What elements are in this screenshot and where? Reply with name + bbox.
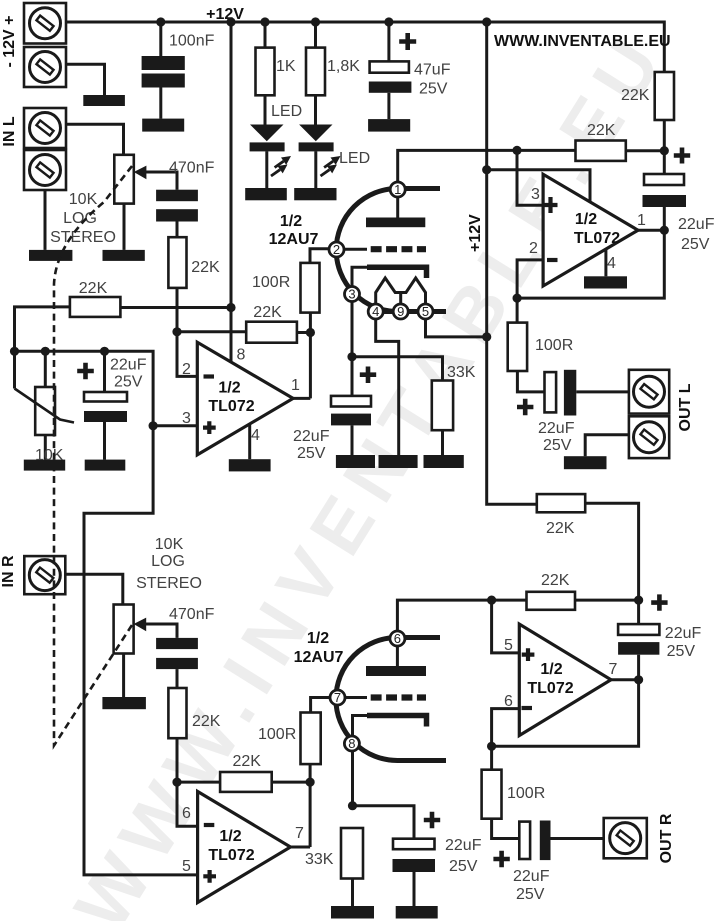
svg-text:7: 7	[609, 661, 618, 678]
svg-text:4: 4	[251, 427, 260, 444]
wire cathode to 33K	[352, 357, 443, 381]
svg-text:7: 7	[295, 825, 304, 842]
svg-text:TL072: TL072	[527, 680, 573, 697]
svg-text:25V: 25V	[516, 886, 545, 903]
terminal block IN R	[24, 556, 65, 594]
capacitor 22uF out L	[517, 370, 629, 454]
tube V1B 12AU7 envelope	[336, 638, 446, 761]
pin 3 V1A	[345, 287, 360, 302]
svg-text:33K: 33K	[305, 851, 334, 868]
capacitor 22uF op4	[618, 594, 701, 679]
node dot D2	[306, 328, 315, 337]
anode plate V1A	[366, 197, 425, 227]
svg-text:100R: 100R	[258, 726, 296, 743]
node dot op4 fb low	[487, 742, 496, 751]
node dot rail 1K	[260, 17, 269, 26]
node dot op3 out	[660, 226, 669, 235]
svg-text:IN R: IN R	[0, 555, 17, 587]
capacitor 22uF bias	[77, 351, 146, 470]
node dot op3 fb	[513, 294, 522, 303]
svg-text:1: 1	[291, 377, 300, 394]
wire bias to pin5 bottom	[84, 426, 198, 875]
node dot rail pin5	[482, 332, 491, 341]
svg-text:25V: 25V	[114, 374, 143, 391]
svg-text:TL072: TL072	[574, 230, 620, 247]
resistor 22K mid (rail to bottom fb)	[537, 494, 639, 600]
resistor 22K input top	[168, 237, 220, 332]
svg-text:25V: 25V	[449, 858, 478, 875]
resistor 1K	[256, 22, 296, 125]
capacitor 22uF cathode bottom	[393, 812, 482, 919]
dashed stereo gang link	[54, 166, 134, 746]
svg-text:10K: 10K	[155, 536, 184, 553]
svg-text:8: 8	[348, 736, 355, 751]
wire +12V vertical rail	[487, 22, 537, 504]
terminal block +12V	[24, 3, 66, 44]
svg-text:WWW.INVENTABLE.EU: WWW.INVENTABLE.EU	[494, 33, 671, 50]
svg-text:22K: 22K	[191, 259, 220, 276]
svg-text:3: 3	[348, 287, 355, 302]
svg-text:1: 1	[637, 212, 646, 229]
terminal block -12V	[24, 47, 66, 87]
svg-text:100nF: 100nF	[169, 33, 215, 50]
node dot pin3	[149, 421, 158, 430]
node dot anode 22K junction	[660, 146, 669, 155]
wire fb node to op4 pin5	[492, 600, 520, 653]
node dot bias cap	[100, 347, 109, 356]
svg-text:2: 2	[182, 361, 191, 378]
svg-text:1: 1	[394, 182, 401, 197]
terminal block OUT R	[604, 818, 647, 858]
node dot cathode junction bottom	[348, 801, 357, 810]
node dot rail op3 V+	[482, 165, 491, 174]
wire heater pin4 to ground	[376, 318, 399, 455]
resistor 100R out L	[508, 298, 574, 392]
op-amp U1B TL072 bottom left	[182, 792, 304, 903]
node dot anode-22K	[512, 146, 521, 155]
capacitor 470nF top	[156, 160, 214, 238]
terminal block IN L a	[24, 108, 66, 148]
svg-text:25V: 25V	[297, 445, 326, 462]
wire op1 output riser	[293, 313, 310, 399]
resistor 22K feedback op2	[220, 753, 272, 792]
node dot D1	[226, 303, 235, 312]
resistor 100R top	[252, 249, 330, 313]
pin 9 V1A	[393, 304, 408, 319]
resistor 22K feedback op1	[246, 304, 297, 343]
svg-text:OUT R: OUT R	[658, 813, 675, 863]
grid V1A	[344, 248, 426, 251]
wire node to op3 pin3	[517, 150, 543, 205]
terminal block IN L b	[24, 150, 66, 190]
node dot rail 47uF	[384, 17, 393, 26]
pin 8 V1B	[344, 736, 359, 751]
op-amp U2B TL072 bottom right	[504, 624, 618, 735]
node dot bias left	[10, 347, 19, 356]
wire T4 to ground	[44, 190, 47, 250]
resistor 22K input bottom	[168, 688, 220, 782]
wire anode riser to node	[398, 150, 576, 182]
wire T2 to ground	[66, 64, 105, 95]
anode plate V1B	[366, 646, 426, 676]
svg-text:25V: 25V	[543, 437, 572, 454]
terminal block OUT L a	[629, 370, 669, 414]
svg-text:STEREO: STEREO	[136, 575, 202, 592]
node dot W2	[172, 327, 181, 336]
op-amp U1A TL072	[153, 342, 300, 471]
capacitor 22uF cathode top	[293, 357, 376, 468]
resistor 100R out R	[482, 746, 546, 838]
svg-text:33K: 33K	[447, 364, 476, 381]
svg-text:1K: 1K	[276, 58, 296, 75]
ground T2	[83, 95, 125, 106]
svg-text:22uF: 22uF	[513, 868, 550, 885]
svg-text:12AU7: 12AU7	[269, 231, 319, 248]
node dot op2 fb	[306, 778, 315, 787]
node dot rail pin8 drop	[226, 17, 235, 26]
svg-text:10K: 10K	[69, 191, 98, 208]
pin 4 V1A	[368, 304, 383, 319]
node dot bias trimmer	[41, 347, 50, 356]
svg-text:22uF: 22uF	[445, 837, 482, 854]
wire pin2 node (W2)	[177, 332, 310, 377]
svg-text:22uF: 22uF	[110, 357, 147, 374]
pin 7 V1B	[330, 690, 345, 705]
capacitor 22uF op3	[643, 148, 715, 254]
cathode V1A	[352, 267, 427, 357]
svg-text:1,8K: 1,8K	[327, 58, 360, 75]
svg-text:6: 6	[394, 631, 401, 646]
pin 1 V1A	[390, 182, 405, 197]
svg-text:LED: LED	[339, 150, 370, 167]
resistor 1,8K	[306, 22, 360, 125]
node dot rail 100nF	[156, 17, 165, 26]
wire op4 pin6 feedback	[492, 680, 639, 747]
wire anode riser bottom	[397, 600, 526, 631]
svg-text:22K: 22K	[192, 713, 221, 730]
LED D1	[245, 103, 302, 200]
wire bias to pin8 (W1)	[15, 22, 232, 363]
svg-text:5: 5	[182, 858, 191, 875]
pin 5 V1A	[418, 304, 433, 319]
svg-text:1/2: 1/2	[540, 661, 562, 678]
svg-text:3: 3	[182, 410, 191, 427]
svg-text:22uF: 22uF	[538, 420, 575, 437]
svg-text:5: 5	[504, 637, 513, 654]
LED D2	[294, 125, 370, 201]
svg-text:7: 7	[334, 690, 341, 705]
svg-text:22K: 22K	[79, 280, 108, 297]
node dot fb bottom	[487, 596, 496, 605]
potentiometer 10K LOG STEREO top	[50, 155, 177, 261]
wire pin6 node	[177, 782, 310, 826]
wire op3 V+	[487, 170, 590, 203]
wire heater pin5 to +12V	[426, 318, 487, 337]
capacitor 47uF	[368, 22, 451, 132]
svg-text:22K: 22K	[253, 304, 282, 321]
svg-text:25V: 25V	[419, 81, 448, 98]
ground T4	[29, 250, 72, 261]
wire IN R to pot	[65, 574, 123, 604]
svg-text:22uF: 22uF	[665, 625, 702, 642]
svg-text:IN L: IN L	[1, 116, 18, 146]
ground heater bar	[379, 455, 418, 468]
svg-text:1/2: 1/2	[307, 630, 329, 647]
wire IN L to pot	[66, 124, 124, 155]
heater V1A	[376, 278, 426, 305]
svg-text:25V: 25V	[667, 643, 696, 660]
svg-text:LOG: LOG	[151, 553, 185, 570]
svg-text:LED: LED	[271, 103, 302, 120]
resistor 33K top	[424, 364, 476, 468]
svg-text:9: 9	[397, 304, 404, 319]
svg-text:OUT L: OUT L	[677, 383, 694, 431]
capacitor 22uF out R	[493, 821, 603, 904]
wire +12V top rail	[66, 22, 664, 72]
grid V1B	[345, 696, 426, 699]
svg-text:1/2: 1/2	[218, 380, 240, 397]
svg-text:5: 5	[422, 304, 429, 319]
cathode V1B	[353, 716, 427, 806]
svg-text:47uF: 47uF	[414, 62, 451, 79]
resistor 22K anode horizontal	[576, 122, 665, 161]
svg-text:22K: 22K	[621, 87, 650, 104]
svg-text:2: 2	[333, 242, 340, 257]
wire bias row	[15, 351, 154, 426]
svg-text:22K: 22K	[541, 572, 570, 589]
wire op2 output riser	[291, 764, 311, 847]
resistor 22K feedback op4	[527, 572, 639, 610]
svg-text:4: 4	[372, 304, 379, 319]
svg-text:8: 8	[237, 347, 246, 364]
pin 6 V1B	[390, 631, 405, 646]
resistor 22K anode vertical	[621, 72, 674, 151]
node dot rail +12V vertical	[482, 17, 491, 26]
svg-text:470nF: 470nF	[169, 160, 215, 177]
pin 2 V1A	[329, 242, 344, 257]
svg-text:12AU7: 12AU7	[294, 649, 344, 666]
trimmer 10K	[15, 351, 75, 470]
wire cathode to cap bottom	[353, 806, 415, 839]
svg-text:TL072: TL072	[208, 398, 254, 415]
svg-text:3: 3	[531, 186, 540, 203]
wire op3 pin2 feedback	[517, 230, 664, 298]
svg-text:1/2: 1/2	[575, 211, 597, 228]
wire OUT L b ground	[585, 435, 629, 456]
capacitor 470nF bottom	[156, 606, 214, 688]
svg-text:+12V: +12V	[467, 214, 484, 252]
svg-text:STEREO: STEREO	[50, 229, 116, 246]
svg-text:TL072: TL072	[208, 847, 254, 864]
wire op3 pin4 ground	[604, 249, 607, 276]
resistor 22K bias upper	[70, 280, 121, 317]
svg-text:100R: 100R	[252, 274, 290, 291]
capacitor 100nF	[142, 22, 215, 132]
node dot op4 out	[634, 675, 643, 684]
potentiometer 10K LOG STEREO bottom	[102, 536, 201, 709]
svg-text:- 12V +: - 12V +	[1, 15, 18, 67]
svg-text:1/2: 1/2	[280, 213, 302, 230]
svg-text:22uF: 22uF	[678, 216, 715, 233]
svg-text:1/2: 1/2	[219, 828, 241, 845]
svg-text:25V: 25V	[681, 236, 710, 253]
node dot 22K fb3 right	[634, 596, 643, 605]
svg-text:4: 4	[607, 255, 616, 272]
svg-text:470nF: 470nF	[169, 606, 215, 623]
svg-text:22K: 22K	[546, 520, 575, 537]
svg-text:2: 2	[529, 240, 538, 257]
tube V1A 12AU7 envelope	[336, 189, 446, 312]
svg-text:10K: 10K	[35, 447, 64, 464]
node dot pin6	[172, 778, 181, 787]
svg-text:6: 6	[182, 805, 191, 822]
svg-text:100R: 100R	[507, 785, 545, 802]
svg-text:22uF: 22uF	[293, 428, 330, 445]
svg-text:+12V: +12V	[206, 6, 244, 23]
op-amp U2A TL072 top right	[529, 174, 646, 286]
resistor 33K bottom	[305, 828, 374, 919]
svg-text:22K: 22K	[233, 753, 262, 770]
svg-text:100R: 100R	[535, 337, 573, 354]
resistor 100R bottom left	[258, 698, 330, 765]
terminal block OUT L b	[629, 416, 669, 458]
svg-text:22K: 22K	[587, 122, 616, 139]
node dot rail 1.8K	[311, 17, 320, 26]
node dot cathode junction	[347, 352, 356, 361]
